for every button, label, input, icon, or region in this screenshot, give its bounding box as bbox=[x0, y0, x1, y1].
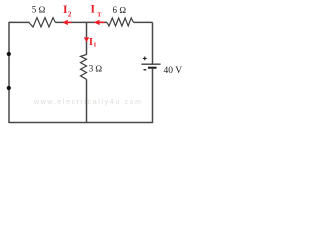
battery 40V short plate bbox=[148, 67, 157, 69]
resistor 3ohm bbox=[81, 55, 87, 80]
wire top-right segment bbox=[134, 21, 153, 23]
wire top-middle segment bbox=[56, 21, 108, 23]
battery minus sign bbox=[144, 69, 147, 71]
resistor 6ohm bbox=[107, 18, 134, 26]
wire middle vertical lower bbox=[86, 79, 88, 122]
svg-text:3: 3 bbox=[89, 63, 94, 73]
wire middle vertical upper bbox=[86, 22, 88, 54]
svg-text:www.electrically4u.com: www.electrically4u.com bbox=[33, 99, 143, 106]
current arrow I1 bbox=[84, 37, 89, 42]
resistor 5ohm bbox=[29, 18, 56, 27]
node junction dot lower bbox=[7, 86, 11, 90]
wire bottom bbox=[9, 122, 153, 124]
svg-text:6 Ω: 6 Ω bbox=[113, 5, 127, 15]
svg-text:5 Ω: 5 Ω bbox=[32, 5, 46, 15]
node junction dot upper bbox=[7, 52, 11, 56]
wire right vertical lower bbox=[152, 68, 154, 123]
battery 40V long plate bbox=[141, 63, 160, 65]
current arrow IT bbox=[94, 20, 105, 25]
current arrow I2 bbox=[62, 20, 71, 25]
wire left vertical bbox=[8, 22, 10, 123]
svg-text:Ω: Ω bbox=[95, 63, 102, 73]
battery plus sign bbox=[143, 57, 147, 61]
wire right vertical upper bbox=[152, 22, 154, 63]
wire top-left segment bbox=[9, 21, 30, 23]
svg-text:40 V: 40 V bbox=[164, 66, 183, 76]
